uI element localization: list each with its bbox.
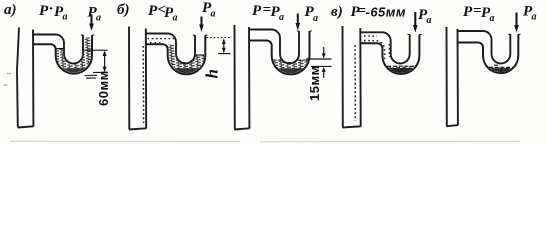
figure-v dark water mass at bend bottom	[389, 68, 413, 73]
figure-b dark water mass at bend bottom	[174, 68, 198, 73]
figure-3 dimension arrows outside pointing inward	[323, 47, 325, 55]
figure-b dotted water film line inside standpipe	[142, 46, 144, 123]
figure-a water in trap (hatched, level 60mm)	[57, 38, 91, 73]
figure-a dark water mass at bend bottom	[63, 68, 85, 72]
figure-b lower level tick	[218, 53, 231, 55]
svg-text:a: a	[313, 13, 318, 24]
figure-a trap trap outer contour (duct bottom wall + U outer wall + inlet outer wall)	[33, 35, 92, 74]
figure-a scan smudge below bend	[85, 75, 98, 78]
figure-a water surface dashes	[57, 48, 64, 50]
figure-b dotted reference level line	[207, 37, 230, 39]
svg-text:а): а)	[4, 2, 17, 18]
svg-text:a: a	[96, 13, 101, 24]
figure-5 trap left standpipe	[447, 27, 458, 126]
figure-5 Pa arrow into inlet	[516, 13, 518, 27]
figure-3 dimension extension ticks	[306, 59, 332, 66]
figure-a trap trap inner contour (duct top wall + U inner wall + inlet inner wall)	[33, 35, 83, 64]
svg-text:·: ·	[49, 1, 53, 17]
figure-v dotted water film line inside standpipe	[354, 45, 356, 121]
figure-b trap trap outer contour (duct bottom wall + U outer wall + inlet outer wall)	[146, 35, 206, 74]
figure-b trap left standpipe	[129, 27, 146, 130]
svg-text:a: a	[490, 13, 495, 24]
faint scan smudges at left	[4, 74, 12, 86]
figure-3 trap left standpipe	[235, 25, 250, 130]
svg-text:a: a	[532, 12, 537, 23]
figure-v trap inlet opening rim ticks	[408, 34, 422, 36]
figure-b water flooding duct, bend, U and inlet arm (hatched)	[163, 45, 204, 74]
figure-v trap left standpipe	[343, 26, 361, 128]
figure-b dimension double arrow h	[223, 41, 225, 52]
figure-3 trap trap inner contour (duct top wall + U inner wall + inlet inner wall)	[249, 30, 299, 64]
figure-b dotted water film rows in duct	[148, 38, 176, 40]
svg-text:60мм: 60мм	[96, 70, 111, 106]
svg-text:P: P	[39, 3, 49, 19]
figure-5 trap inlet opening rim ticks	[508, 33, 520, 35]
figure-5 water surface dashes	[489, 65, 513, 67]
figure-v Pa arrow into inlet	[414, 12, 416, 26]
figure-v trap trap outer contour (duct bottom wall + U outer wall + inlet outer wall)	[360, 35, 419, 75]
svg-text:15мм: 15мм	[307, 65, 322, 101]
figure-b trap trap inner contour (duct top wall + U inner wall + inlet inner wall)	[146, 34, 195, 64]
figure-b trap inlet opening rim ticks	[193, 34, 208, 36]
figure-a trap left standpipe	[17, 28, 33, 128]
svg-text:a: a	[173, 13, 178, 24]
svg-text:P: P	[252, 3, 262, 19]
svg-text:a: a	[427, 15, 432, 26]
figure-b right-arm water surface dash	[196, 54, 204, 56]
figure-v water surface dashes over bend	[387, 65, 415, 67]
faint scan streak along bottom	[10, 140, 520, 143]
svg-text:в): в)	[331, 4, 343, 20]
figure-v thin water layer in U bend (hatched)	[387, 66, 414, 72]
figure-a dimension double arrow	[104, 52, 106, 71]
figure-v trap trap inner contour (duct top wall + U inner wall + inlet inner wall)	[360, 32, 409, 63]
svg-text:a: a	[211, 9, 216, 20]
svg-text:h: h	[203, 69, 222, 78]
svg-text:P: P	[148, 3, 158, 19]
figure-3 residual water in U bend (hatched, 15mm)	[274, 60, 308, 73]
figure-b Pa arrow into inlet	[201, 17, 203, 26]
svg-text:б): б)	[117, 2, 129, 18]
svg-text:a: a	[279, 12, 284, 23]
figure-a Pa arrow into inlet	[91, 15, 93, 25]
figure-5 thin water layer in U bend (hatched)	[489, 68, 512, 72]
figure-a trap inlet opening rim ticks	[81, 34, 94, 36]
figure-5 dark water mass at bend bottom	[490, 68, 511, 72]
figure-a dimension extension ticks	[84, 50, 108, 72]
figure-3 Pa arrow into inlet	[297, 14, 299, 25]
figure-3 dark water mass at bend bottom	[278, 68, 302, 73]
figure-3 trap inlet opening rim ticks	[297, 30, 312, 32]
figure-3 water surface dashes	[273, 60, 308, 63]
figure-v water film dots along duct and down-bend	[364, 35, 377, 37]
svg-text:a: a	[63, 12, 68, 23]
figure-5 trap trap outer contour (duct bottom wall + U outer wall + inlet outer wall)	[458, 34, 519, 73]
svg-text:-65мм: -65мм	[366, 5, 407, 20]
figure-5 trap trap inner contour (duct top wall + U inner wall + inlet inner wall)	[458, 31, 511, 63]
svg-text:P: P	[463, 4, 473, 20]
figure-3 trap trap outer contour (duct bottom wall + U outer wall + inlet outer wall)	[249, 31, 310, 74]
